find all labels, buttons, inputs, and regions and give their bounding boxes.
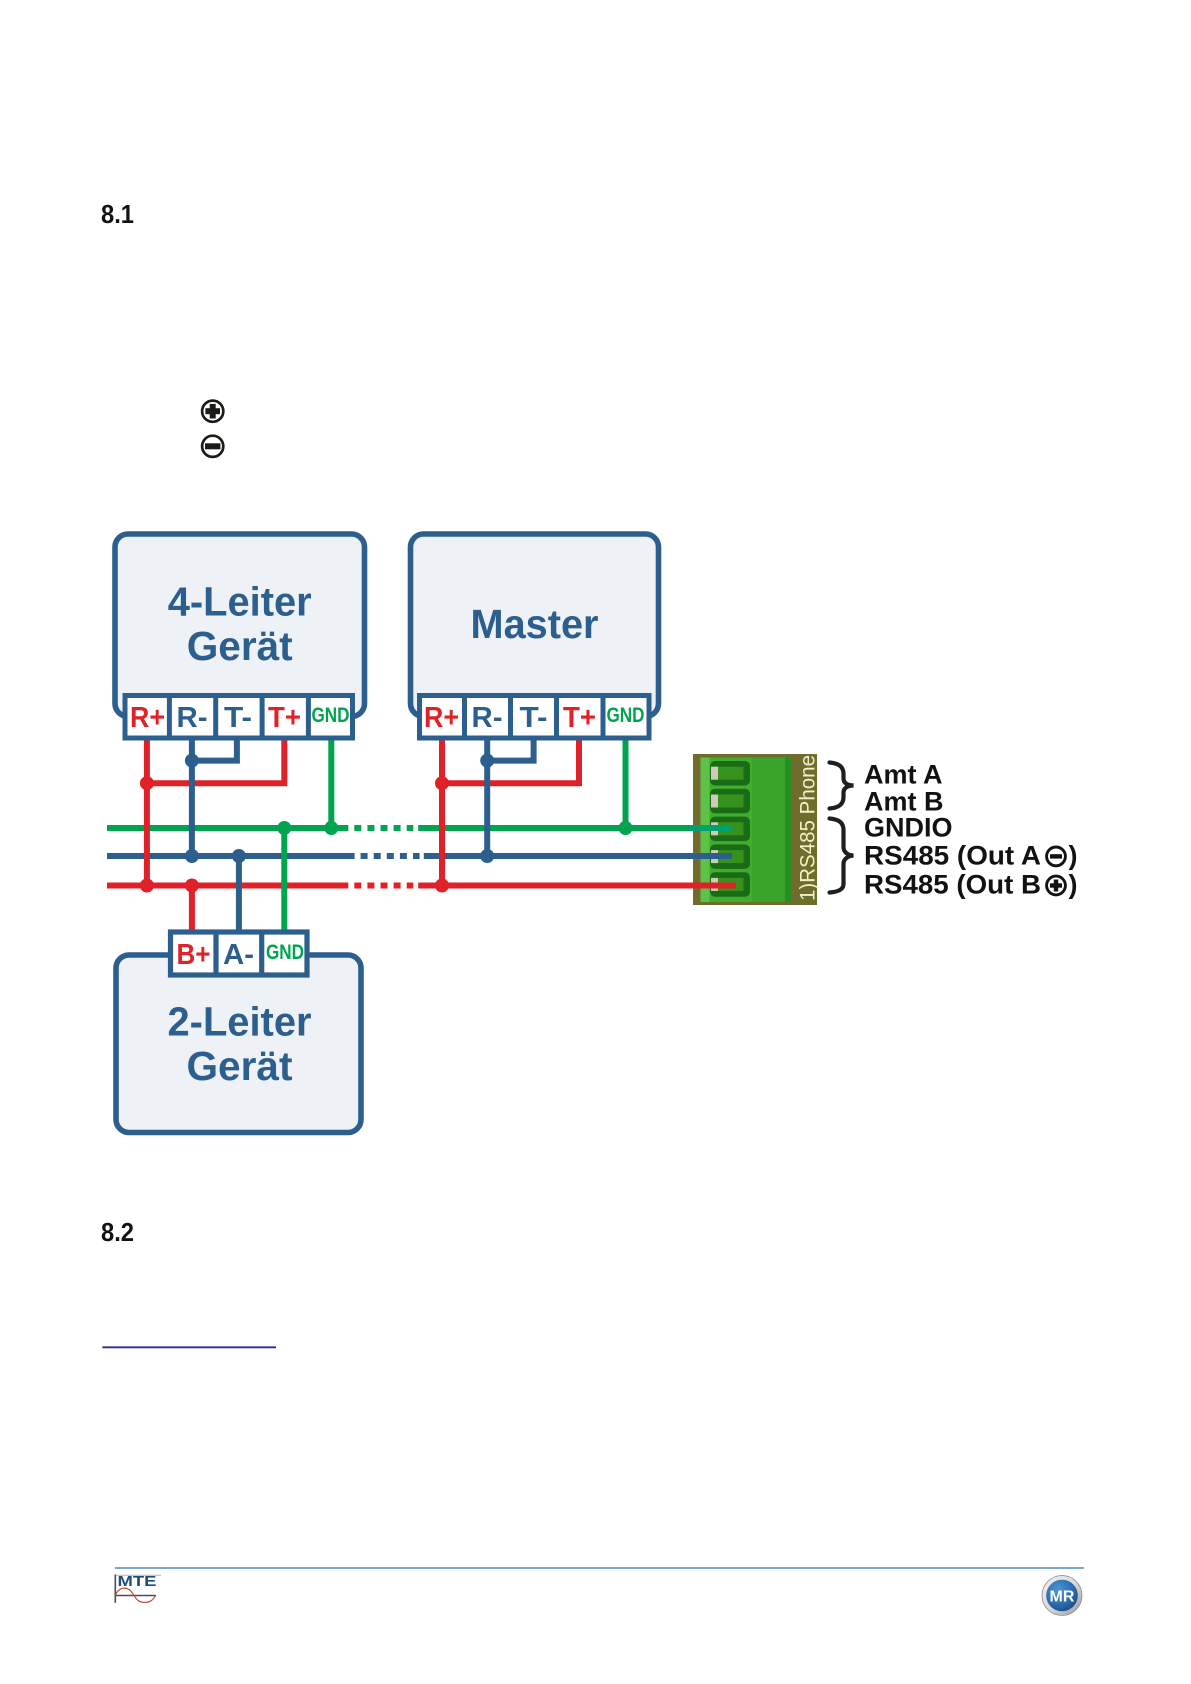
wire blue jumper R- to T- (Master) bbox=[487, 737, 533, 761]
svg-text:RS485 (Out A: RS485 (Out A bbox=[864, 841, 1041, 871]
svg-text:T-: T- bbox=[224, 702, 252, 734]
junction blue jumper (4-Leiter) bbox=[185, 754, 199, 768]
junction green bus / 4-Leiter GND bbox=[324, 821, 338, 835]
junction red bus / 4-Leiter R+ bbox=[140, 879, 154, 893]
svg-text:B+: B+ bbox=[177, 939, 211, 971]
svg-text:4-Leiter: 4-Leiter bbox=[168, 579, 312, 625]
junction red jumper (4-Leiter) bbox=[140, 776, 154, 790]
circled plus (label) bbox=[1047, 876, 1066, 895]
terminal strip 2-Leiter bbox=[171, 932, 308, 975]
connector socket 3 (GNDIO) bbox=[710, 817, 750, 842]
svg-text:T-: T- bbox=[520, 702, 548, 734]
blue RS485 A bus bbox=[107, 853, 732, 859]
circled plus symbol bbox=[202, 401, 223, 422]
connector socket 5 (RS485 B) bbox=[710, 872, 750, 897]
terminal strip 4-Leiter bbox=[125, 696, 353, 739]
wire R+ vertical (4-Leiter) bbox=[144, 737, 150, 886]
svg-text:GND: GND bbox=[607, 704, 645, 727]
wire blue jumper R- to T- (4-Leiter) bbox=[192, 737, 237, 761]
svg-text:Gerät: Gerät bbox=[187, 623, 293, 669]
junction blue jumper (Master) bbox=[480, 754, 494, 768]
svg-text:A-: A- bbox=[223, 939, 254, 971]
svg-text:2-Leiter: 2-Leiter bbox=[168, 999, 312, 1045]
svg-text:Gerät: Gerät bbox=[187, 1043, 293, 1089]
svg-text:GND: GND bbox=[312, 704, 350, 727]
brace GNDIO/RS485 bbox=[830, 819, 854, 893]
svg-text:R+: R+ bbox=[130, 702, 165, 734]
junction red jumper (Master) bbox=[435, 776, 449, 790]
wire RS485 A into connector bbox=[690, 853, 732, 859]
junction blue bus / 2-Leiter drop bbox=[232, 849, 246, 863]
svg-text:R-: R- bbox=[177, 702, 208, 734]
wire GND vertical (4-Leiter) bbox=[328, 737, 334, 828]
junction red bus / Master R+ bbox=[435, 879, 449, 893]
connector socket 1 (Amt A) bbox=[710, 761, 750, 786]
junction green bus / Master GND bbox=[619, 821, 633, 835]
footer rule bbox=[115, 1567, 1084, 1569]
hyperlink underline bbox=[102, 1346, 276, 1348]
connector socket 2 (Amt B) bbox=[710, 789, 750, 814]
svg-text:8.1: 8.1 bbox=[101, 199, 134, 229]
device box Master bbox=[411, 534, 659, 717]
wire R- vertical (4-Leiter) bbox=[189, 737, 195, 856]
svg-text:MR: MR bbox=[1050, 1589, 1075, 1606]
wire drop red bus to B+ bbox=[189, 886, 195, 933]
wire R- vertical (Master) bbox=[484, 737, 490, 856]
wire drop green bus to GND (2-Leiter) bbox=[281, 828, 287, 932]
svg-text:MTE: MTE bbox=[118, 1574, 157, 1590]
circled minus symbol bbox=[202, 436, 223, 457]
device box 4-Leiter Geraet bbox=[115, 534, 365, 717]
wire red jumper R+ to T+ (4-Leiter) bbox=[147, 737, 284, 783]
junction red bus / 2-Leiter drop bbox=[185, 879, 199, 893]
svg-text:8.2: 8.2 bbox=[101, 1217, 134, 1247]
MR logo bbox=[1042, 1576, 1082, 1616]
junction blue bus / 4-Leiter R- bbox=[185, 849, 199, 863]
wire GNDIO into connector bbox=[690, 825, 732, 831]
svg-text:): ) bbox=[1069, 870, 1078, 900]
terminal strip Master bbox=[420, 696, 650, 739]
svg-text:R-: R- bbox=[472, 702, 503, 734]
junction green bus / 2-Leiter drop bbox=[277, 821, 291, 835]
MTE logo bbox=[115, 1574, 161, 1603]
svg-text:GND: GND bbox=[266, 941, 304, 964]
red RS485 B bus bbox=[107, 883, 736, 889]
svg-text:Amt A: Amt A bbox=[864, 759, 943, 789]
svg-text:Master: Master bbox=[471, 601, 599, 647]
wire R+ vertical (Master) bbox=[439, 737, 445, 886]
svg-text:): ) bbox=[1069, 841, 1078, 871]
wire RS485 B into connector bbox=[690, 883, 736, 889]
RS485 connector photo bbox=[693, 754, 817, 905]
svg-text:T+: T+ bbox=[268, 702, 301, 734]
svg-text:RS485 (Out B: RS485 (Out B bbox=[864, 870, 1041, 900]
circled minus (label) bbox=[1047, 847, 1066, 866]
wire red jumper R+ to T+ (Master) bbox=[442, 737, 579, 783]
device box 2-Leiter Geraet bbox=[116, 955, 361, 1133]
svg-text:GNDIO: GNDIO bbox=[864, 813, 953, 843]
svg-text:R+: R+ bbox=[424, 702, 459, 734]
connector socket 4 (RS485 A) bbox=[710, 844, 750, 869]
green GND bus bbox=[107, 825, 732, 831]
wire drop blue bus to A- bbox=[236, 856, 242, 932]
brace Amt A/B bbox=[830, 763, 854, 809]
svg-text:1)RS485 Phone: 1)RS485 Phone bbox=[797, 755, 820, 901]
wire GND vertical (Master) bbox=[623, 737, 629, 828]
junction blue bus / Master R- bbox=[480, 849, 494, 863]
svg-text:T+: T+ bbox=[563, 702, 596, 734]
